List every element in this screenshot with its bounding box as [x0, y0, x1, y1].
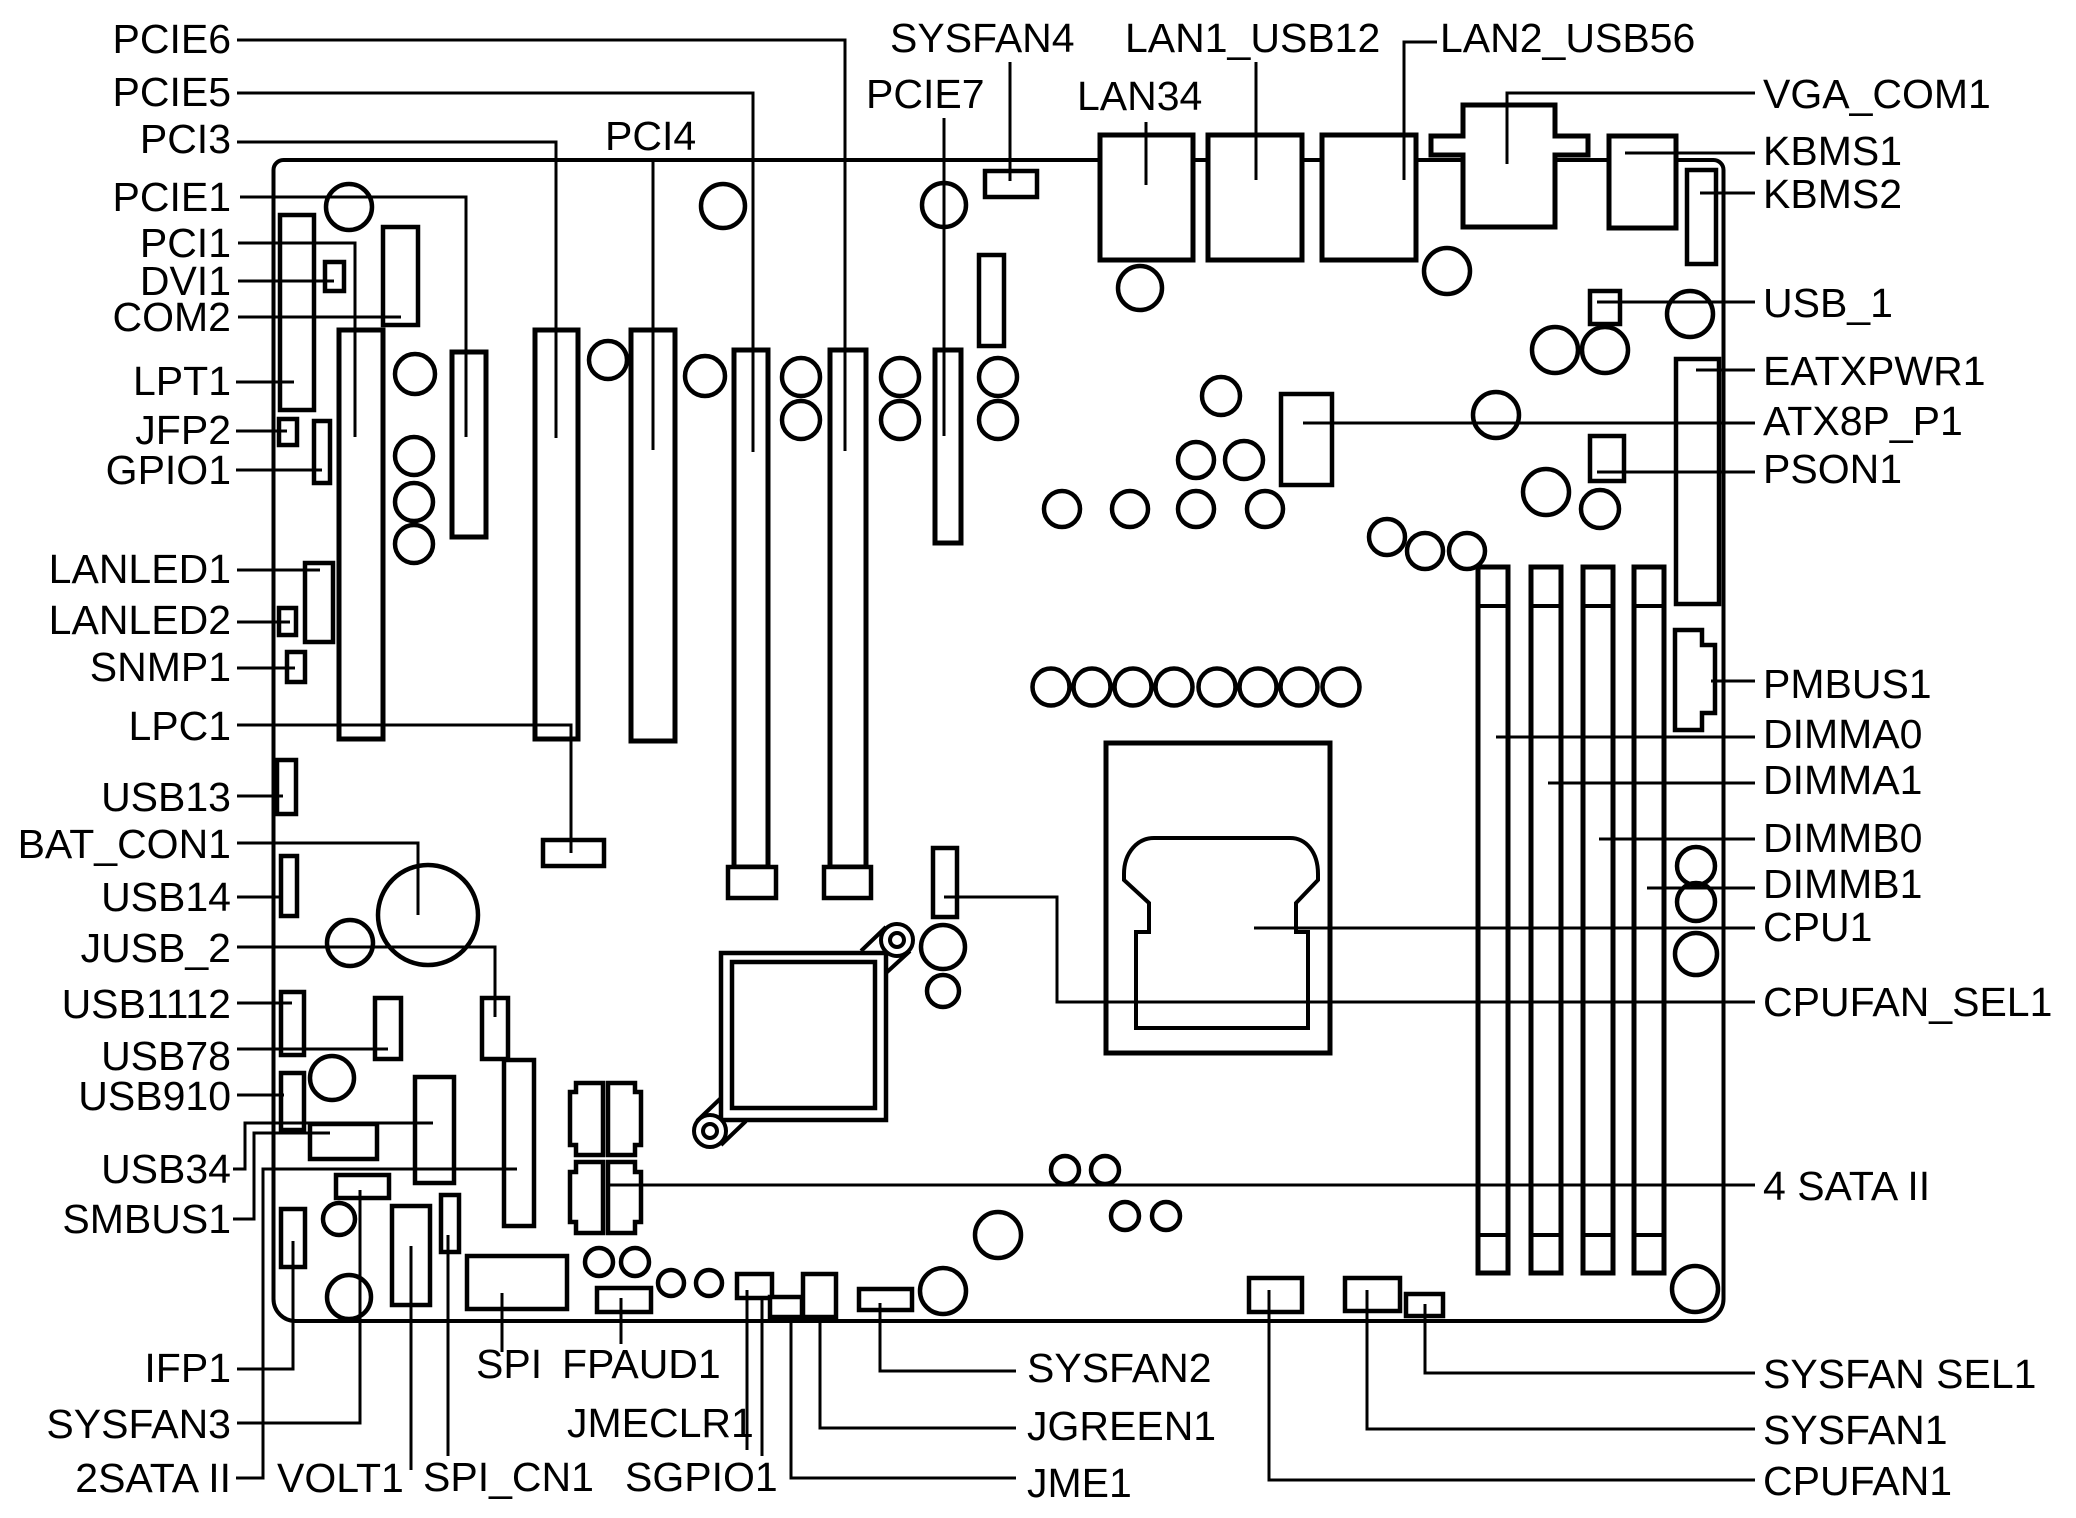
svg-text:LANLED1: LANLED1	[49, 546, 231, 592]
cap b1	[782, 358, 820, 396]
cap a1	[589, 341, 627, 379]
svg-text:SMBUS1: SMBUS1	[62, 1196, 231, 1242]
slot PCIE6	[830, 350, 866, 867]
svg-text:LANLED2: LANLED2	[49, 597, 231, 643]
leader PCI3	[237, 142, 556, 438]
DIMMB0 top collar	[1583, 604, 1613, 608]
cap c2	[881, 401, 919, 439]
svg-text:USB13: USB13	[101, 774, 231, 820]
leader LAN34	[1145, 122, 1148, 185]
svg-text:SYSFAN2: SYSFAN2	[1027, 1345, 1212, 1391]
leader USB78	[237, 1048, 388, 1051]
connector JGREEN1 JME1 block	[803, 1274, 836, 1317]
leader USB_1	[1597, 301, 1755, 304]
connector LANLED1	[305, 563, 333, 642]
connector USB14	[281, 856, 297, 916]
hole top mid2	[922, 183, 966, 227]
leader 4 SATA II	[608, 1184, 1755, 1187]
svg-text:SYSFAN4: SYSFAN4	[890, 15, 1075, 61]
svg-text:CPUFAN_SEL1: CPUFAN_SEL1	[1763, 979, 2052, 1025]
svg-text:LPC1: LPC1	[128, 703, 231, 749]
connector VOLT1	[392, 1206, 430, 1305]
connector SYSFAN SEL1	[1406, 1294, 1443, 1316]
leader PCIE1	[240, 197, 466, 437]
cap dimm3	[1675, 933, 1717, 975]
cap spi1	[585, 1248, 613, 1276]
slot PCIE1	[452, 352, 486, 537]
svg-text:USB34: USB34	[101, 1146, 231, 1192]
connector LPT1	[280, 215, 314, 410]
heatsink outer	[721, 953, 886, 1120]
leader EATXPWR1	[1696, 369, 1755, 372]
svg-text:VOLT1: VOLT1	[277, 1455, 404, 1501]
leader CPUFAN1	[1269, 1290, 1755, 1480]
DIMMA1 top collar	[1531, 604, 1561, 608]
leader SYSFAN SEL1	[1425, 1304, 1755, 1373]
cap spi2	[621, 1248, 649, 1276]
leader JMECLR1	[746, 1290, 749, 1450]
svg-text:SPI: SPI	[476, 1341, 542, 1387]
svg-text:2SATA II: 2SATA II	[75, 1455, 231, 1501]
connector near PCIE7	[979, 255, 1004, 346]
connector JFP2	[279, 419, 297, 445]
svg-text:PCI4: PCI4	[605, 113, 696, 159]
leader LPC1	[237, 725, 571, 853]
svg-text:SYSFAN1: SYSFAN1	[1763, 1407, 1948, 1453]
port VGA_COM1	[1431, 105, 1588, 227]
connector DVI1	[325, 262, 344, 291]
leader PCIE7	[943, 118, 946, 436]
cap b3	[979, 358, 1017, 396]
connector SATA C	[570, 1162, 603, 1233]
cap h6	[1240, 669, 1277, 706]
port LAN2_USB56	[1322, 135, 1416, 260]
leader SPI	[501, 1293, 504, 1352]
leader SNMP1	[237, 667, 295, 670]
hole right USB_1	[1667, 291, 1713, 337]
connector USB_1	[1590, 291, 1620, 324]
DIMMB1 top collar	[1634, 604, 1664, 608]
hole bottom mid	[975, 1212, 1021, 1258]
connector USB910	[281, 1073, 304, 1130]
connector PMBUS1	[1675, 630, 1715, 730]
connector ATX8P_P1	[1281, 394, 1332, 485]
svg-text:PCI3: PCI3	[140, 116, 231, 162]
svg-text:LAN2_USB56: LAN2_USB56	[1440, 15, 1695, 61]
connector SATA B	[608, 1083, 641, 1155]
leader SMBUS1	[233, 1133, 330, 1219]
leader USB34	[233, 1123, 433, 1169]
svg-text:IFP1: IFP1	[144, 1345, 231, 1391]
connector FPAUD1	[597, 1288, 651, 1312]
cap right	[1581, 490, 1619, 528]
leader SYSFAN2	[880, 1303, 1016, 1371]
svg-text:LAN1_USB12: LAN1_USB12	[1125, 15, 1380, 61]
cap dimm2	[1677, 883, 1715, 921]
hole mid right1	[1532, 327, 1578, 373]
cap near heatsink1	[921, 925, 965, 969]
cap ifp1	[323, 1203, 355, 1235]
svg-text:4 SATA II: 4 SATA II	[1763, 1163, 1930, 1209]
leader LAN1_USB12	[1255, 62, 1258, 180]
leader PCI1	[238, 243, 355, 437]
leader DIMMB0	[1599, 838, 1755, 841]
svg-text:PSON1: PSON1	[1763, 446, 1902, 492]
connector SPI_CN1	[441, 1195, 459, 1252]
slot DIMMB0	[1583, 567, 1613, 1273]
connector USB13	[277, 760, 296, 814]
svg-text:DIMMA1: DIMMA1	[1763, 757, 1922, 803]
cap h8	[1323, 669, 1360, 706]
cap dimm1	[1677, 847, 1715, 885]
leader DIMMB1	[1647, 887, 1755, 890]
hole bottom-left	[327, 1275, 371, 1319]
svg-text:CPUFAN1: CPUFAN1	[1763, 1458, 1952, 1504]
leader JFP2	[236, 430, 287, 433]
leader SYSFAN1	[1367, 1290, 1755, 1429]
leader CPUFAN_SEL1	[944, 897, 1755, 1002]
cap d1	[395, 354, 435, 394]
svg-text:USB14: USB14	[101, 874, 231, 920]
cap sata4	[1152, 1202, 1180, 1230]
svg-text:SYSFAN3: SYSFAN3	[46, 1401, 231, 1447]
cap sata3	[1111, 1202, 1139, 1230]
leader USB13	[237, 795, 283, 798]
slot PCI4	[631, 330, 675, 741]
connector SYSFAN1	[1345, 1278, 1400, 1311]
svg-text:SYSFAN SEL1: SYSFAN SEL1	[1763, 1351, 2036, 1397]
leader PSON1	[1597, 471, 1755, 474]
hole near KBMS	[1424, 248, 1470, 294]
cap d2	[395, 437, 433, 475]
leader ATX8P_P1	[1303, 422, 1755, 425]
slot PCIE6 foot	[824, 867, 871, 898]
connector USB34	[415, 1077, 454, 1183]
battery BAT_CON1	[378, 865, 478, 965]
connector IFP1	[281, 1209, 305, 1267]
svg-text:SNMP1: SNMP1	[90, 644, 231, 690]
connector SYSFAN4	[985, 171, 1037, 197]
port KBMS2	[1687, 170, 1716, 264]
svg-text:JME1: JME1	[1027, 1460, 1132, 1506]
svg-text:DIMMB0: DIMMB0	[1763, 815, 1922, 861]
slot DIMMA0	[1478, 567, 1508, 1273]
svg-text:KBMS2: KBMS2	[1763, 171, 1902, 217]
svg-text:USB1112: USB1112	[62, 981, 231, 1027]
leader LANLED1	[237, 569, 320, 572]
cap h7	[1281, 669, 1318, 706]
cap e3	[1225, 441, 1263, 479]
heatsink ear bottom-left	[694, 1115, 726, 1147]
leader GPIO1	[236, 469, 322, 472]
cap h5	[1199, 669, 1236, 706]
leader KBMS1	[1625, 152, 1755, 155]
slot PCIE5	[734, 350, 768, 867]
leader DIMMA0	[1496, 736, 1755, 739]
DIMMB0 bottom collar	[1583, 1233, 1613, 1237]
leader COM2	[238, 316, 401, 319]
svg-text:PCIE6: PCIE6	[113, 16, 232, 62]
leader SYSFAN3	[237, 1190, 360, 1423]
svg-text:COM2: COM2	[113, 294, 231, 340]
connector USB78	[375, 998, 401, 1059]
DIMMB1 bottom collar	[1634, 1233, 1664, 1237]
slot PCIE5 foot	[728, 867, 776, 898]
cap h4	[1156, 669, 1193, 706]
cap f1	[1044, 491, 1080, 527]
hole top mid1	[701, 184, 745, 228]
svg-text:LPT1: LPT1	[133, 358, 231, 404]
slot PCI3	[535, 330, 578, 739]
leader USB910	[237, 1094, 284, 1097]
slot DIMMA1	[1531, 567, 1561, 1273]
hole top-left	[326, 184, 372, 230]
svg-text:SPI_CN1: SPI_CN1	[423, 1454, 594, 1500]
cap sata1	[1051, 1156, 1079, 1184]
board outline	[274, 160, 1724, 1321]
svg-text:DIMMA0: DIMMA0	[1763, 711, 1922, 757]
cap f3	[1178, 491, 1214, 527]
cap near heatsink2	[927, 975, 959, 1007]
svg-text:VGA_COM1: VGA_COM1	[1763, 71, 1991, 117]
leader PCIE5	[237, 93, 753, 452]
connector JMECLR1	[737, 1274, 772, 1298]
cap e1	[1202, 377, 1240, 415]
DIMMA0 bottom collar	[1478, 1233, 1508, 1237]
connector SPI	[467, 1256, 567, 1309]
connector LPC1	[543, 840, 604, 866]
svg-text:EATXPWR1: EATXPWR1	[1763, 348, 1986, 394]
cap b2	[881, 358, 919, 396]
svg-text:SGPIO1: SGPIO1	[625, 1454, 778, 1500]
connector PSON1	[1590, 436, 1624, 481]
connector SGPIO1	[770, 1297, 802, 1317]
svg-text:PCIE7: PCIE7	[866, 71, 985, 117]
hole usb910	[310, 1056, 354, 1100]
leader JGREEN1	[820, 1317, 1016, 1428]
hole mid right3	[1473, 392, 1519, 438]
cap h2	[1074, 669, 1111, 706]
svg-text:FPAUD1: FPAUD1	[562, 1341, 721, 1387]
connector 2SATA	[504, 1060, 534, 1226]
cap g2	[1407, 533, 1443, 569]
connector GPIO1	[314, 421, 330, 483]
svg-text:DIMMB1: DIMMB1	[1763, 861, 1922, 907]
leader PCI4	[652, 160, 655, 450]
connector USB1112	[281, 992, 304, 1055]
leader LPT1	[236, 381, 294, 384]
leader PMBUS1	[1711, 680, 1755, 683]
connector CPUFAN1	[1249, 1278, 1302, 1312]
leader FPAUD1	[620, 1298, 623, 1344]
slot DIMMB1	[1634, 567, 1664, 1273]
svg-text:JGREEN1: JGREEN1	[1027, 1403, 1216, 1449]
connector SYSFAN3	[336, 1175, 389, 1198]
connector SNMP1	[287, 652, 305, 682]
cap f4	[1247, 491, 1283, 527]
leader LANLED2	[237, 621, 290, 624]
connector SATA A	[570, 1083, 603, 1155]
cap a2	[685, 356, 725, 396]
svg-text:PCIE5: PCIE5	[113, 69, 232, 115]
cap e2	[1178, 442, 1214, 478]
hole bottom mid2	[920, 1268, 966, 1314]
slot PCIE7	[935, 350, 961, 543]
hole mid right4	[1523, 469, 1569, 515]
leader PCIE6	[237, 40, 845, 451]
port LAN34	[1100, 135, 1193, 260]
cap g3	[1449, 533, 1485, 569]
svg-text:PMBUS1: PMBUS1	[1763, 661, 1932, 707]
leader VOLT1	[410, 1246, 413, 1470]
svg-text:USB_1: USB_1	[1763, 280, 1893, 326]
connector SYSFAN2	[859, 1289, 912, 1310]
connector CPUFAN_SEL1	[933, 848, 957, 917]
leader USB14	[237, 896, 283, 899]
heatsink inner	[732, 962, 875, 1108]
port LAN1_USB12	[1208, 135, 1302, 260]
heatsink ear top-right	[881, 924, 913, 956]
svg-text:PCIE1: PCIE1	[113, 174, 232, 220]
cap sata2	[1091, 1156, 1119, 1184]
cap f2	[1112, 491, 1148, 527]
connector JUSB_2	[482, 998, 508, 1059]
leader BAT_CON1	[237, 843, 418, 915]
cap h3	[1115, 669, 1152, 706]
hole below LAN34	[1118, 266, 1162, 310]
connector LANLED2	[279, 608, 296, 635]
leader SPI_CN1	[447, 1235, 450, 1456]
svg-text:KBMS1: KBMS1	[1763, 128, 1902, 174]
cap d3	[395, 483, 433, 521]
leader IFP1	[237, 1241, 293, 1369]
leader 2SATA II	[236, 1169, 517, 1478]
connector COM2	[383, 227, 418, 325]
svg-text:JUSB_2: JUSB_2	[81, 925, 231, 971]
svg-text:JMECLR1: JMECLR1	[567, 1400, 754, 1446]
hole bottom right	[1672, 1266, 1718, 1312]
svg-text:GPIO1: GPIO1	[106, 447, 231, 493]
leader VGA_COM1	[1507, 93, 1755, 164]
leader JME1	[791, 1317, 1016, 1478]
svg-text:ATX8P_P1: ATX8P_P1	[1763, 398, 1963, 444]
cap d4	[395, 525, 433, 563]
cap h1	[1033, 669, 1070, 706]
connector SATA D	[608, 1162, 641, 1233]
cap spi3	[658, 1270, 684, 1296]
DIMMA0 top collar	[1478, 604, 1508, 608]
svg-text:USB910: USB910	[78, 1073, 231, 1119]
leader USB1112	[237, 1002, 292, 1005]
port KBMS1	[1609, 136, 1676, 228]
leader CPU1	[1254, 927, 1755, 930]
cap c1	[782, 401, 820, 439]
connector SMBUS1	[310, 1124, 377, 1159]
slot PCI1	[339, 330, 383, 739]
DIMMA1 bottom collar	[1531, 1233, 1561, 1237]
CPU1 socket	[1124, 838, 1318, 1028]
leader DVI1	[238, 280, 334, 283]
leader JUSB_2	[237, 947, 495, 1017]
svg-text:CPU1: CPU1	[1763, 904, 1872, 950]
connector EATXPWR1	[1676, 359, 1719, 604]
cap spi4	[696, 1270, 722, 1296]
cap g1	[1369, 519, 1405, 555]
svg-text:BAT_CON1: BAT_CON1	[18, 821, 231, 867]
leader SYSFAN4	[1009, 62, 1012, 181]
leader SGPIO1	[761, 1300, 764, 1456]
leader DIMMA1	[1548, 782, 1755, 785]
cap c3	[979, 401, 1017, 439]
leader KBMS2	[1700, 192, 1755, 195]
hole mid right2	[1582, 327, 1628, 373]
cap left battery	[327, 920, 373, 966]
CPU1 outer	[1106, 743, 1330, 1053]
leader LAN2_USB56	[1404, 42, 1437, 180]
svg-text:LAN34: LAN34	[1077, 73, 1202, 119]
